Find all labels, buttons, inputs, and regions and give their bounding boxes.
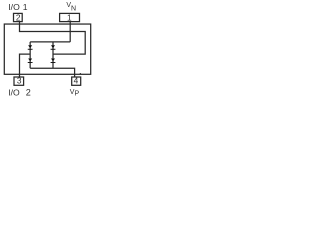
svg-text:2: 2 [16, 12, 21, 22]
svg-text:2: 2 [26, 88, 31, 98]
svg-text:I/O: I/O [8, 2, 20, 12]
svg-text:P: P [75, 91, 80, 98]
svg-text:1: 1 [67, 12, 72, 22]
svg-text:1: 1 [23, 2, 28, 12]
svg-text:I/O: I/O [8, 88, 20, 98]
svg-text:N: N [71, 5, 76, 12]
svg-text:4: 4 [74, 76, 79, 86]
svg-text:3: 3 [17, 76, 22, 86]
